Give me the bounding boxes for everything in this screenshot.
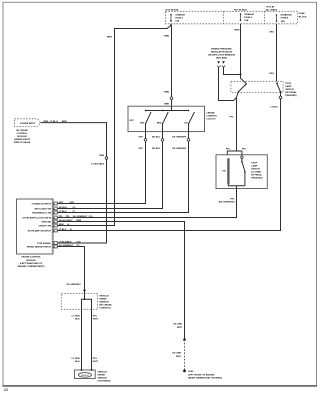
module pin column dashed line xyxy=(51,199,53,254)
svg-text:BRN: BRN xyxy=(77,220,82,222)
svg-text:HOT IN RUN: HOT IN RUN xyxy=(166,9,179,11)
svg-text:STOPLAMP SW INPUT: STOPLAMP SW INPUT xyxy=(28,230,52,233)
wire LT BLU from stoplamp switch down to row 7 xyxy=(58,92,281,231)
coil bar inside pedal box xyxy=(227,158,229,184)
clutch switch blade 1 xyxy=(146,112,152,124)
connector circle at pedal switch pin xyxy=(241,156,243,158)
svg-text:(UNDER RIGHT: (UNDER RIGHT xyxy=(14,139,31,141)
svg-text:LAMP: LAMP xyxy=(285,85,292,88)
svg-text:RES: RES xyxy=(157,122,162,124)
wire PPL from stoplamp switch to pedal box xyxy=(237,92,239,151)
svg-text:(W/ PEDAL: (W/ PEDAL xyxy=(285,91,297,94)
clutch internal bus xyxy=(146,110,189,112)
splice dot on ground wire xyxy=(183,338,186,341)
row 5 pin xyxy=(53,220,58,223)
cruise input dashed callout box xyxy=(15,119,41,127)
svg-text:DK GRN/WHT: DK GRN/WHT xyxy=(66,284,81,286)
svg-text:SENSOR: SENSOR xyxy=(81,375,89,377)
dashed ground wire segment xyxy=(184,340,186,371)
svg-text:LEFT FRONT OF ENGINE: LEFT FRONT OF ENGINE xyxy=(188,374,215,376)
svg-text:MODULE: MODULE xyxy=(26,260,36,262)
row 1 pin xyxy=(53,202,58,205)
svg-text:VEHICLE: VEHICLE xyxy=(98,372,108,374)
stoplamp switch blade 2 xyxy=(277,83,281,92)
svg-text:BLK: BLK xyxy=(75,319,80,321)
svg-text:ON/OFF SW: ON/OFF SW xyxy=(39,226,52,228)
svg-text:BRN: BRN xyxy=(62,121,67,123)
svg-text:DK BLU: DK BLU xyxy=(59,207,68,209)
clutch terminal connector 1 xyxy=(144,139,147,142)
svg-text:BLK: BLK xyxy=(75,361,80,363)
svg-text:PPL: PPL xyxy=(66,216,71,218)
adapter internal split xyxy=(82,294,85,310)
svg-text:GRY: GRY xyxy=(70,202,75,204)
clutch terminal wire 1 to row 1 xyxy=(58,132,146,204)
row 2 pin xyxy=(53,207,58,210)
clutch terminal connector 3 xyxy=(187,139,190,142)
svg-text:SPEED SENSOR INPUT: SPEED SENSOR INPUT xyxy=(27,247,52,249)
svg-text:PPL: PPL xyxy=(230,198,235,200)
svg-text:CLUTCH: CLUTCH xyxy=(206,119,215,121)
svg-text:GRY: GRY xyxy=(138,136,143,138)
svg-text:BRN: BRN xyxy=(164,91,169,93)
wire BRN branch left from F5 to node B xyxy=(58,25,172,225)
svg-text:10A: 10A xyxy=(175,20,179,23)
svg-text:G102: G102 xyxy=(188,371,194,373)
svg-text:(ORANGE): (ORANGE) xyxy=(281,13,292,16)
regulator valve terminal 2 xyxy=(222,61,225,64)
svg-text:LT BLU/BLK: LT BLU/BLK xyxy=(91,164,104,166)
svg-text:LT BLU: LT BLU xyxy=(59,229,67,231)
cruise control module box xyxy=(17,199,54,254)
svg-text:DK GRN/WHT: DK GRN/WHT xyxy=(73,216,88,218)
svg-text:CRUISE ON INPUT: CRUISE ON INPUT xyxy=(32,204,52,206)
svg-text:ALL TIMES: ALL TIMES xyxy=(266,8,278,11)
svg-text:(ON TRANS): (ON TRANS) xyxy=(98,380,111,383)
row 5 ground wire to G102 xyxy=(58,222,185,340)
fuse F4 xyxy=(276,13,292,22)
pedal / stoplamp switch box xyxy=(216,155,267,189)
svg-text:SIDE OF DASH): SIDE OF DASH) xyxy=(14,141,31,144)
svg-text:REGULATOR VALVE: REGULATOR VALVE xyxy=(211,51,233,54)
svg-text:CONTROL: CONTROL xyxy=(17,133,28,135)
svg-text:SENSOR: SENSOR xyxy=(99,302,109,304)
row 7 pin xyxy=(53,229,58,232)
connector on LT BLU wire xyxy=(279,96,282,99)
svg-text:LAMP: LAMP xyxy=(251,164,258,167)
junction dot above adapter box xyxy=(83,289,85,291)
split to pedal box pins xyxy=(227,151,242,156)
svg-text:FUSE 5: FUSE 5 xyxy=(175,18,183,20)
svg-text:SPEED: SPEED xyxy=(98,375,106,377)
svg-text:PRESSED): PRESSED) xyxy=(285,95,296,97)
row 8 pin xyxy=(53,242,58,245)
svg-text:SET: SET xyxy=(140,122,145,124)
svg-text:DK BLU: DK BLU xyxy=(152,148,161,150)
clutch terminal wire 2 to row 2 xyxy=(58,132,163,209)
wire from fuse F5 down to junction xyxy=(170,24,172,26)
svg-text:WHT: WHT xyxy=(93,361,99,363)
svg-text:(W/O ABS): (W/O ABS) xyxy=(216,57,227,60)
pedal box internal bus xyxy=(228,184,245,186)
ground G102 dot xyxy=(183,370,186,373)
svg-text:PPL: PPL xyxy=(93,358,98,360)
svg-text:W/ CRUISE: W/ CRUISE xyxy=(16,130,28,132)
sensor oval xyxy=(78,373,91,378)
right sensor wire xyxy=(91,309,93,370)
svg-text:20A: 20A xyxy=(281,20,285,23)
fuse block divider 1 xyxy=(223,11,225,23)
svg-text:BRN: BRN xyxy=(164,104,169,106)
svg-text:SENSOR: SENSOR xyxy=(98,378,108,380)
svg-text:FUSE 4: FUSE 4 xyxy=(281,17,289,20)
svg-text:BRN: BRN xyxy=(235,30,240,32)
wire from regulator terminal 1 to PPL node xyxy=(219,67,237,101)
pedal switch blade xyxy=(241,158,243,161)
svg-text:VEHICLE: VEHICLE xyxy=(99,296,109,298)
svg-text:BRAKE PRESSURE: BRAKE PRESSURE xyxy=(211,48,232,51)
svg-text:CRUISE CONTROL: CRUISE CONTROL xyxy=(21,257,41,259)
svg-text:ORG: ORG xyxy=(269,73,274,75)
svg-text:LT GRN: LT GRN xyxy=(72,315,80,317)
svg-text:1/8: 1/8 xyxy=(4,388,9,392)
svg-text:DK GRN: DK GRN xyxy=(172,353,181,355)
svg-text:WHT: WHT xyxy=(176,356,182,358)
svg-text:BRN: BRN xyxy=(99,155,104,157)
svg-text:WHT: WHT xyxy=(93,319,99,321)
svg-text:ORANGE: ORANGE xyxy=(175,14,185,17)
svg-text:(W/ CRUISE: (W/ CRUISE xyxy=(99,305,112,307)
svg-text:FUSE 2: FUSE 2 xyxy=(244,17,252,19)
left sensor wire xyxy=(81,309,83,370)
svg-text:LT GRN: LT GRN xyxy=(72,358,80,360)
svg-text:DK GRN/WHT: DK GRN/WHT xyxy=(172,136,187,138)
wire PPL / DK GRN-WHT from pedal box to row 4 xyxy=(58,186,237,218)
svg-text:LT BLU: LT BLU xyxy=(270,107,278,109)
wire BRN from cruise input to node A down to row 8 xyxy=(41,123,107,243)
row 3 pin xyxy=(53,211,58,214)
stoplamp switch dashed box xyxy=(231,81,283,92)
row 9 pin xyxy=(53,245,58,248)
svg-text:STOPLAMP/CLUTCH SW IN: STOPLAMP/CLUTCH SW IN xyxy=(22,217,51,220)
svg-text:BRN: BRN xyxy=(164,36,169,38)
svg-text:SPEED: SPEED xyxy=(99,299,107,301)
bottom frame edge xyxy=(3,385,317,387)
connector on node A wire xyxy=(105,157,108,160)
regulator valve terminal 1 xyxy=(217,61,220,64)
clutch terminal connector 2 xyxy=(161,139,164,142)
svg-text:CONTROL: CONTROL xyxy=(206,116,217,118)
svg-text:HOT IN RUN: HOT IN RUN xyxy=(234,9,247,11)
clutch switch blade 3 xyxy=(189,112,195,124)
svg-text:STOP: STOP xyxy=(285,83,291,85)
svg-text:W/ PEDAL: W/ PEDAL xyxy=(251,173,262,176)
stoplamp switch blade 1 xyxy=(238,84,246,92)
svg-text:10A: 10A xyxy=(244,19,248,22)
wire below connector into clutch box xyxy=(171,100,173,111)
svg-text:PPL: PPL xyxy=(230,117,235,119)
clutch terminal wire 3 to row 3 xyxy=(58,132,189,213)
svg-text:OFF: OFF xyxy=(129,120,134,122)
row 4 pin xyxy=(53,216,58,219)
svg-text:HOT AT: HOT AT xyxy=(267,6,276,9)
svg-text:ENGINE COMPARTMENT): ENGINE COMPARTMENT) xyxy=(18,265,45,268)
row 6 pin xyxy=(53,224,58,227)
svg-text:SET/COAST SW: SET/COAST SW xyxy=(34,208,52,211)
svg-text:(W/ ANTI-LOCK BRAKES): (W/ ANTI-LOCK BRAKES) xyxy=(208,54,235,57)
svg-text:PRESSED): PRESSED) xyxy=(251,177,262,179)
wire BRN from fuse F2 down to stoplamp switch xyxy=(241,24,247,84)
fuse F5 xyxy=(170,14,185,23)
fuse block dashed box xyxy=(166,11,298,23)
svg-text:STOP: STOP xyxy=(251,162,257,164)
speed sensor adapter dashed box xyxy=(61,294,97,310)
wire BRN from F5 down to cruise clutch xyxy=(170,25,173,97)
svg-text:WHT: WHT xyxy=(177,327,183,329)
sensor terminals xyxy=(81,369,83,371)
svg-text:GROUND: GROUND xyxy=(41,222,51,224)
wire ORG from fuse F4 down to stoplamp switch xyxy=(276,24,278,82)
svg-text:SWITCH: SWITCH xyxy=(251,168,260,170)
svg-text:GRY: GRY xyxy=(138,148,143,150)
svg-text:(LEFT REAR SIDE OF: (LEFT REAR SIDE OF xyxy=(20,262,43,265)
svg-text:BRN: BRN xyxy=(107,37,112,39)
svg-text:GRY: GRY xyxy=(59,202,64,204)
svg-text:CRUISE INPUT: CRUISE INPUT xyxy=(20,123,36,125)
junction dot fuse F5 split xyxy=(170,24,172,26)
svg-text:BRN: BRN xyxy=(44,121,49,123)
svg-text:PPL: PPL xyxy=(242,149,247,151)
svg-text:DK BLU: DK BLU xyxy=(152,136,161,138)
svg-text:CRUISE: CRUISE xyxy=(206,113,215,115)
svg-text:PPL: PPL xyxy=(59,216,64,218)
fuse F2 xyxy=(240,13,255,22)
svg-text:LT BLU/BLK: LT BLU/BLK xyxy=(59,242,72,244)
svg-text:PCM SIGNAL: PCM SIGNAL xyxy=(37,242,51,245)
svg-text:BLOCK: BLOCK xyxy=(299,16,307,18)
clutch switch blade 2 xyxy=(163,112,169,124)
svg-text:MODULE: MODULE xyxy=(17,136,27,138)
svg-text:ON: ON xyxy=(184,122,188,124)
junction dot F2 wire / regulator branch xyxy=(240,74,242,76)
svg-text:SWITCH: SWITCH xyxy=(285,89,294,91)
svg-text:LT BLU: LT BLU xyxy=(59,211,67,213)
svg-text:(DK GRN/WHT): (DK GRN/WHT) xyxy=(219,202,235,204)
svg-text:(NEAR THERMOSTAT HOUSING): (NEAR THERMOSTAT HOUSING) xyxy=(188,377,222,380)
svg-text:DK GRN/WHT: DK GRN/WHT xyxy=(172,148,187,150)
svg-text:CONTROL): CONTROL) xyxy=(99,308,111,310)
fuse block divider 2 xyxy=(264,11,266,23)
svg-text:BRN: BRN xyxy=(59,224,64,226)
svg-text:ORANGE: ORANGE xyxy=(244,13,254,16)
svg-text:ORG: ORG xyxy=(269,32,274,34)
cruise control clutch box xyxy=(128,106,205,131)
svg-text:DK GRN: DK GRN xyxy=(173,324,182,326)
svg-text:(CLOSED: (CLOSED xyxy=(251,171,261,173)
svg-text:PPL: PPL xyxy=(93,315,98,317)
connector C on clutch feed wire xyxy=(170,97,173,100)
svg-text:LT BLU: LT BLU xyxy=(50,121,58,123)
svg-text:FUSE: FUSE xyxy=(299,13,305,15)
svg-text:PPL: PPL xyxy=(226,149,231,151)
row 9 wire down to speed sensor adapter xyxy=(58,247,85,294)
vehicle speed sensor box xyxy=(75,370,96,379)
wire from regulator terminal 2 to F2 wire xyxy=(224,67,241,75)
svg-text:DK BLU/WHT: DK BLU/WHT xyxy=(59,220,74,222)
svg-text:RESUME/ACC SW: RESUME/ACC SW xyxy=(32,212,52,215)
